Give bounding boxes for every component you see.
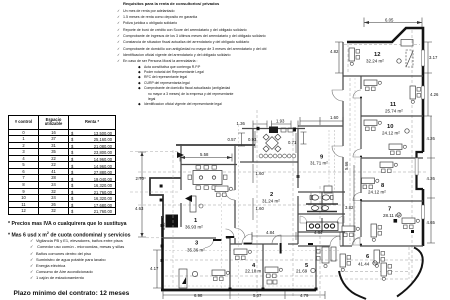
rent table (8, 115, 116, 215)
curved wall bottom right second (339, 271, 366, 299)
svg-text:7: 7 (388, 207, 391, 213)
door arc room5 (272, 235, 281, 244)
dashed terrace vertical (408, 247, 410, 279)
dim 4.17 (153, 250, 161, 288)
desk room1 b (215, 186, 232, 197)
door arc room11 (353, 90, 361, 98)
svg-text:25.74 m²: 25.74 m² (385, 109, 403, 114)
svg-text:5.66: 5.66 (344, 161, 349, 170)
door arc bath (330, 236, 340, 246)
dashed terrace bottom (340, 278, 410, 280)
window slit right wall 3 (415, 158, 418, 175)
svg-text:4.82: 4.82 (330, 49, 339, 54)
marker room12 (397, 59, 401, 63)
dim 1.93 (272, 121, 299, 128)
svg-text:1.60: 1.60 (256, 171, 265, 176)
desk room6 c (340, 254, 351, 271)
service blocks next to elevator (281, 128, 286, 132)
svg-text:1.60: 1.60 (256, 206, 265, 211)
svg-text:4.26: 4.26 (427, 136, 436, 141)
dim 4.84 b (296, 232, 340, 240)
svg-text:0.57: 0.57 (228, 137, 237, 142)
counter bar b (307, 211, 337, 213)
dim 4.65 (427, 198, 435, 243)
door arc room6 (352, 238, 360, 246)
wall y162 below chairs row (240, 161, 298, 163)
stair shaft black (166, 215, 179, 228)
door leaf bath (308, 243, 313, 245)
svg-text:4.79: 4.79 (300, 293, 309, 298)
column squares left wall (160, 185, 164, 263)
dim 3.17 (424, 42, 432, 73)
dim 5.58 (180, 154, 232, 162)
dim 6.05 top (364, 18, 422, 28)
desk room6 b (381, 263, 392, 280)
equipment room4 (267, 280, 272, 284)
outer wall top-right block (347, 28, 423, 152)
svg-text:36.93 m²: 36.93 m² (185, 225, 203, 230)
door arc room3 (226, 229, 235, 238)
marker room5 (311, 268, 315, 272)
window box on top wall (401, 40, 413, 47)
cabinet room6 (331, 247, 336, 261)
desk room8 a (380, 162, 397, 173)
bath center wall (321, 192, 323, 232)
reception wall x253 (252, 128, 254, 162)
svg-text:4.65: 4.65 (427, 220, 436, 225)
dim 4.26 c (427, 158, 435, 198)
wall top of room1 block y144 (176, 144, 255, 146)
corridor wall y244 left part (163, 237, 230, 239)
dashed grid line horizontal A (138, 171, 428, 173)
door arc room8 (353, 193, 361, 201)
stepped exterior wall left protrusion (150, 178, 181, 218)
desk room10 a (364, 120, 381, 131)
dimension lines (153, 18, 435, 300)
door arc room10 (353, 149, 361, 157)
dashed grid line horizontal D (165, 275, 340, 277)
extension dashes left (130, 152, 178, 238)
desk room11 b (410, 86, 421, 103)
dimension texts (135, 18, 439, 299)
wall x235 vertical (234, 144, 236, 244)
desk corridor (342, 226, 359, 237)
svg-text:24.12 m²: 24.12 m² (368, 190, 386, 195)
dim 0.57 (238, 133, 245, 146)
svg-text:4.17: 4.17 (150, 266, 159, 271)
svg-text:1: 1 (194, 218, 198, 224)
svg-text:4.26: 4.26 (427, 176, 436, 181)
svg-text:10: 10 (387, 124, 393, 130)
svg-text:5.07: 5.07 (253, 293, 262, 298)
svg-text:2: 2 (270, 192, 273, 198)
corridor wall y246 right (298, 245, 423, 247)
dashed grid line horizontal C (165, 259, 425, 261)
svg-text:21.69: 21.69 (296, 269, 308, 274)
conference room top wall y163 (181, 164, 237, 166)
wall x298 vertical (297, 128, 299, 244)
desk room10 b (389, 144, 406, 155)
reception top wall y128 (242, 128, 305, 130)
svg-text:22.18 m: 22.18 m (245, 269, 262, 274)
door leaf room5 (280, 243, 282, 254)
waiting chairs circle row (259, 154, 296, 158)
counter bar a (306, 203, 338, 205)
conference chairs (188, 166, 227, 190)
bathroom stall lines (311, 192, 333, 205)
svg-text:32.24 m²: 32.24 m² (366, 59, 384, 64)
svg-text:4.63: 4.63 (135, 206, 144, 211)
room9 top wall y126 (298, 125, 343, 127)
wall y201 room8 bottom (361, 200, 423, 202)
desk room1 a (190, 196, 196, 212)
outer wall right notch (417, 152, 424, 189)
desk room12 a (349, 48, 360, 65)
price notes (8, 221, 131, 242)
desk room7 a (402, 218, 419, 229)
outer wall right lower (422, 189, 425, 246)
dim 4.26 b (427, 116, 435, 158)
svg-text:11: 11 (390, 102, 397, 108)
dashed above bottom wall (164, 285, 315, 287)
dashed grid line vertical G (319, 186, 321, 298)
svg-text:3.82: 3.82 (345, 205, 354, 210)
services checklist (30, 238, 124, 281)
svg-text:3.17: 3.17 (429, 55, 438, 60)
toilets top row (310, 195, 333, 200)
requirements list (117, 1, 277, 108)
svg-text:5.58: 5.58 (200, 152, 209, 157)
wall y76 room12 bottom (343, 75, 423, 77)
bath door arcs bottom (300, 216, 307, 223)
desk room5 a (317, 247, 330, 268)
door arc room7 (353, 237, 361, 245)
dashed grid line vertical I (347, 44, 349, 73)
svg-text:0.93: 0.93 (248, 137, 257, 142)
dashed hallway vertical b (354, 78, 356, 244)
desk room3 b (212, 270, 229, 281)
svg-text:4.84: 4.84 (266, 230, 275, 235)
svg-text:35.36 m²: 35.36 m² (187, 248, 205, 253)
dashed grid line vertical D3 (221, 170, 223, 290)
bathroom block walls (298, 192, 345, 232)
svg-text:31.24 m²: 31.24 m² (262, 199, 280, 204)
room divider x230 below corridor (229, 238, 231, 290)
marker room10 (405, 129, 409, 133)
door arc hall x343 b (332, 146, 343, 157)
desk room5 b (265, 267, 282, 278)
window slit right wall 4 (422, 205, 425, 219)
outer wall left thick (161, 216, 164, 290)
svg-text:2.70: 2.70 (136, 176, 145, 181)
dim 1.36 (253, 121, 267, 128)
sink counter bottom (307, 222, 339, 231)
elevator block (269, 127, 278, 134)
room divider x316 below corridor (315, 246, 317, 290)
dashed under diagonal (344, 44, 420, 46)
dim 0.71 (295, 133, 297, 153)
desk room3 a (179, 269, 198, 288)
svg-text:1.60: 1.60 (330, 115, 339, 120)
dashed vertical x173 (172, 150, 174, 283)
svg-text:31.71 m²: 31.71 m² (310, 161, 328, 166)
sink counter room9 (301, 132, 307, 144)
column marker dashed line (411, 230, 414, 233)
dim 1.60 mid a (252, 164, 254, 183)
north arrow (177, 152, 184, 158)
svg-text:6.05: 6.05 (385, 18, 394, 23)
dim 0.93 (254, 131, 256, 148)
svg-text:8: 8 (381, 183, 385, 189)
room labels (185, 52, 403, 274)
dashed grid line vertical H (411, 30, 413, 283)
svg-text:4.26: 4.26 (430, 92, 439, 97)
wall y116 room11 bottom (361, 115, 423, 117)
door leaf room12 (406, 50, 413, 67)
column squares bottom wall (229, 288, 318, 291)
marker room7 (397, 213, 401, 217)
desk room8 b (362, 178, 379, 189)
door arrow room1 (185, 195, 192, 202)
column sq room9 wall (297, 175, 300, 178)
desk room4 a (234, 249, 251, 260)
window slit right wall 1 (421, 50, 424, 66)
dim 6.98 (163, 291, 230, 299)
black sq room7 (394, 219, 398, 223)
toilets second row (311, 206, 328, 211)
window slit right wall 2 (421, 86, 424, 99)
svg-text:6.98: 6.98 (194, 293, 203, 298)
door arc room4 (242, 234, 252, 244)
curved wall bottom right (397, 248, 423, 297)
room divider x263 below corridor (262, 244, 264, 290)
desk room6 a (374, 250, 385, 267)
dashed grid line horizontal B (138, 204, 345, 206)
dim 1.60 mid b (252, 198, 254, 220)
sinks (309, 224, 334, 228)
svg-text:3: 3 (195, 241, 199, 247)
dim chain left x142 (138, 152, 146, 237)
dashed hallway vertical (349, 78, 351, 244)
dashed terrace top (340, 271, 410, 273)
svg-text:0.90: 0.90 (162, 223, 166, 230)
dashed grid line vertical E (256, 110, 258, 298)
dim 5.07 (230, 291, 285, 299)
svg-text:12: 12 (374, 52, 380, 58)
dim 4.26 a (424, 73, 432, 116)
conference table (193, 171, 222, 185)
dashed shaft room9 (329, 130, 335, 192)
door arc conference (225, 190, 235, 200)
svg-text:4.84: 4.84 (314, 230, 323, 235)
wall y158 room10 bottom (361, 157, 423, 159)
desk room7 b (371, 224, 382, 241)
svg-text:1.36: 1.36 (237, 121, 246, 126)
svg-text:24.12 m²: 24.12 m² (382, 131, 400, 136)
door arc room2 left (235, 228, 245, 238)
x-table waiting (257, 128, 286, 157)
corridor wall y244 mid (230, 243, 298, 245)
svg-text:0.71: 0.71 (288, 140, 297, 145)
dashed grid line vertical D2 (238, 125, 240, 298)
svg-text:1.93: 1.93 (276, 119, 285, 124)
door arc hall x343 a (332, 90, 343, 101)
dim 4.84 a (252, 232, 296, 240)
wall left x178 (180, 144, 182, 227)
dim 3.82 (353, 165, 355, 242)
dashed grid line vertical F (292, 128, 294, 298)
desk room11 a (364, 80, 381, 91)
plan markers (311, 59, 409, 273)
dim 4.79 (285, 291, 325, 299)
dim 4.82 (335, 42, 343, 73)
black blocks on wall (257, 127, 297, 132)
wall x343 vertical left of right strip (342, 42, 344, 246)
contract term (14, 290, 130, 297)
dim 1.60 right (300, 117, 343, 125)
svg-text:6: 6 (366, 254, 370, 260)
hallway right wall x361 (360, 76, 362, 246)
dashed rooms345 top (165, 250, 340, 252)
marker room6 (373, 261, 377, 265)
outer wall bottom thick (161, 289, 316, 292)
svg-text:41.44: 41.44 (358, 262, 370, 267)
